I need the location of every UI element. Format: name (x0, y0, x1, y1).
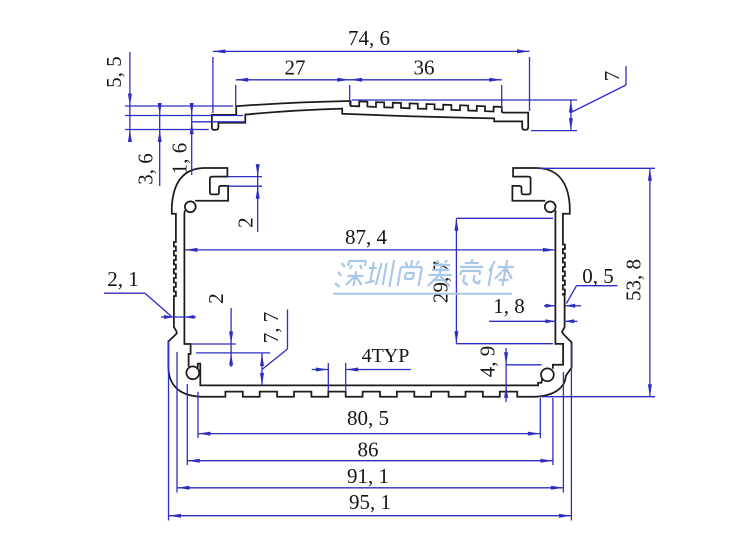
dimension 91,1 (177, 352, 563, 493)
dimension 80,5 (198, 392, 540, 438)
dimension 2,1 wall thickness leader (104, 267, 196, 319)
dimensions 27 and 36 lid segments (236, 56, 502, 111)
svg-text:86: 86 (358, 438, 379, 462)
dimension 5,5 lid height left (102, 52, 233, 142)
right bottom screw boss (541, 368, 554, 381)
dimension 2 shelf step (191, 293, 270, 367)
dimension 29,7 right cavity height (429, 218, 554, 343)
dimension 95,1 overall width (169, 340, 572, 521)
dimension 0,5 notch leader (566, 264, 617, 304)
svg-text:4TYP: 4TYP (362, 345, 410, 367)
dimension 7 lid edge height (352, 66, 626, 131)
body outer contour with feet and knurled walls (168, 168, 571, 397)
body right rim and C-slot (512, 168, 545, 201)
watermark text and underline (333, 259, 515, 294)
svg-text:53, 8: 53, 8 (622, 259, 646, 301)
svg-text:36: 36 (414, 56, 435, 80)
dimension 86 (187, 384, 553, 465)
dimension 1,6 lid lip (168, 103, 246, 175)
lid cover profile outline (212, 101, 528, 130)
left top screw boss (185, 201, 196, 212)
dimension 53,8 overall height (540, 168, 655, 396)
dimension 7,7 shelf to floor (259, 310, 288, 386)
svg-text:4, 9: 4, 9 (476, 346, 500, 378)
body left rim and C-slot (195, 168, 228, 201)
svg-text:0, 5: 0, 5 (582, 264, 614, 288)
svg-text:1, 6: 1, 6 (168, 143, 192, 175)
svg-text:7, 7: 7, 7 (259, 312, 283, 344)
svg-text:5, 5: 5, 5 (102, 56, 126, 88)
svg-text:1, 8: 1, 8 (493, 294, 525, 318)
right boss jog and cavity floor (370, 379, 542, 386)
right top screw boss (545, 201, 556, 212)
svg-text:80, 5: 80, 5 (347, 406, 389, 430)
right inner wall face and recess ledge (553, 210, 563, 368)
left bottom screw boss (186, 366, 199, 379)
svg-text:3, 6: 3, 6 (134, 153, 158, 185)
svg-text:27: 27 (285, 56, 306, 80)
svg-text:2, 1: 2, 1 (107, 267, 139, 291)
dimension 87,4 inner width (185, 225, 555, 252)
dimension 1,8 wall thickness (489, 294, 581, 323)
dimension 74,6 overall lid width (213, 26, 530, 113)
svg-text:2: 2 (234, 217, 258, 228)
dimension 4TYP serration pitch (312, 345, 411, 391)
dimension 4,9 right ledge (476, 346, 542, 402)
svg-text:87, 4: 87, 4 (345, 225, 388, 249)
dimension 2 slot opening (227, 164, 262, 232)
svg-text:2: 2 (204, 293, 228, 304)
left inner wall face and shelf (184, 210, 190, 366)
svg-text:74, 6: 74, 6 (348, 26, 390, 50)
dimension 3,6 lid left step (125, 103, 243, 186)
svg-text:91, 1: 91, 1 (347, 464, 389, 488)
svg-text:7: 7 (600, 71, 624, 82)
svg-text:95, 1: 95, 1 (349, 490, 391, 514)
left boss jog and cavity floor (198, 364, 372, 386)
